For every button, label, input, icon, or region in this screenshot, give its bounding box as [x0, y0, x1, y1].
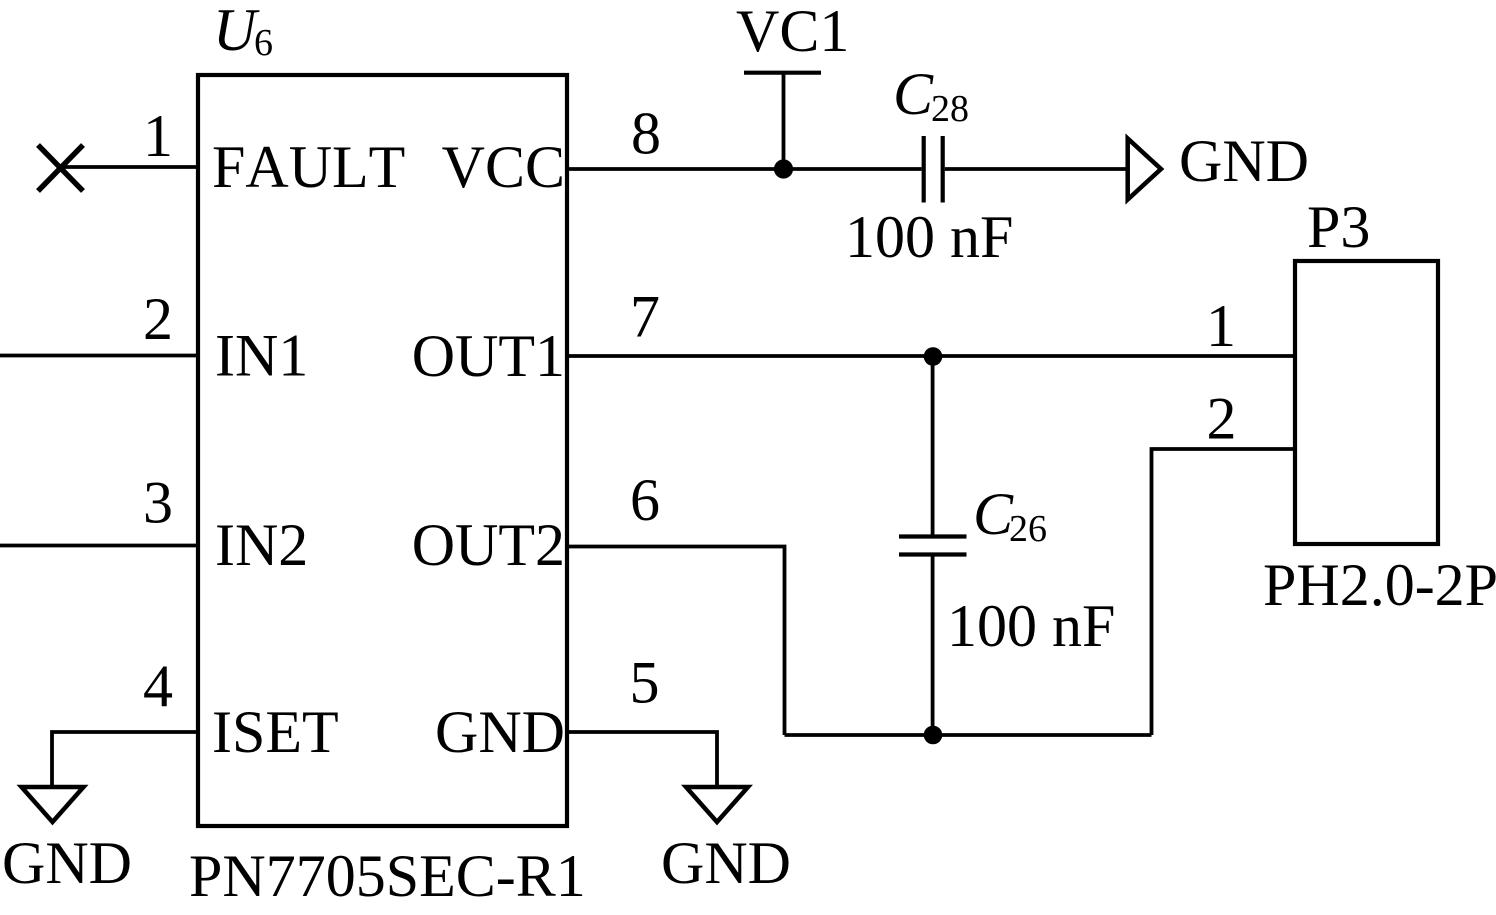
svg-text:6: 6 [254, 22, 273, 64]
wire OUT1 node down to C26 [931, 356, 935, 537]
svg-text:2: 2 [143, 286, 173, 352]
no-connect X on pin 1 [38, 145, 83, 191]
svg-text:GND: GND [435, 699, 565, 765]
junction dot OUT1/C26 node [924, 347, 943, 366]
svg-text:ISET: ISET [212, 699, 339, 765]
power symbol VC1 [744, 73, 821, 169]
svg-text:P3: P3 [1307, 194, 1370, 260]
svg-text:GND: GND [2, 830, 132, 896]
label C28 [893, 61, 969, 130]
wire pin 7 OUT1 to P3 pin 1 [567, 354, 1295, 358]
svg-text:26: 26 [1009, 508, 1047, 550]
svg-text:3: 3 [143, 470, 173, 536]
svg-text:2: 2 [1207, 386, 1237, 452]
svg-text:U: U [213, 0, 260, 63]
svg-text:OUT2: OUT2 [412, 512, 565, 578]
svg-text:8: 8 [631, 101, 661, 167]
svg-text:PH2.0-2P: PH2.0-2P [1263, 552, 1496, 618]
svg-text:FAULT: FAULT [212, 134, 405, 200]
wire C26 down to bottom net [931, 555, 935, 736]
capacitor C26 [899, 537, 967, 555]
svg-text:IN1: IN1 [215, 323, 308, 389]
svg-text:6: 6 [630, 467, 660, 533]
svg-text:VC1: VC1 [736, 0, 849, 64]
svg-text:4: 4 [143, 653, 173, 719]
svg-text:C: C [973, 481, 1014, 547]
ground symbol at pin 4 [22, 787, 84, 822]
svg-text:1: 1 [143, 103, 173, 169]
junction dot VCC/VC1 node [774, 159, 793, 178]
ground symbol at pin 5 [686, 787, 748, 822]
IC U6 body [198, 75, 567, 826]
svg-text:OUT1: OUT1 [412, 323, 565, 389]
wire pin 8 VCC to C28 [567, 167, 922, 171]
svg-text:5: 5 [630, 650, 660, 716]
wire pin 1 FAULT [61, 165, 198, 169]
svg-text:100 nF: 100 nF [947, 593, 1115, 659]
junction dot bottom net [924, 726, 943, 745]
svg-text:GND: GND [1179, 128, 1309, 194]
svg-text:VCC: VCC [442, 134, 565, 200]
svg-text:1: 1 [1206, 293, 1236, 359]
svg-text:GND: GND [661, 830, 791, 896]
wire pin 2 IN1 [0, 354, 198, 358]
wire pin 5 GND [567, 732, 717, 787]
ground arrow symbol (right) [1128, 139, 1161, 200]
svg-text:7: 7 [630, 284, 660, 350]
wire C28 to GND arrow [945, 167, 1126, 171]
wire pin 6 OUT2 [567, 547, 785, 736]
svg-text:100 nF: 100 nF [845, 204, 1013, 270]
svg-text:IN2: IN2 [215, 512, 308, 578]
wire pin 3 IN2 [0, 544, 198, 548]
svg-text:PN7705SEC-R1: PN7705SEC-R1 [189, 843, 586, 909]
IC U6 reference designator U6 [213, 0, 273, 64]
svg-text:28: 28 [931, 88, 969, 130]
label C26 [973, 481, 1047, 550]
connector P3 body [1295, 261, 1438, 544]
wire bottom net OUT2 to riser [785, 733, 1152, 737]
wire pin 4 ISET [52, 732, 198, 787]
capacitor C28 [924, 136, 943, 203]
svg-text:C: C [893, 61, 934, 127]
wire riser to P3 pin 2 [1152, 449, 1296, 735]
